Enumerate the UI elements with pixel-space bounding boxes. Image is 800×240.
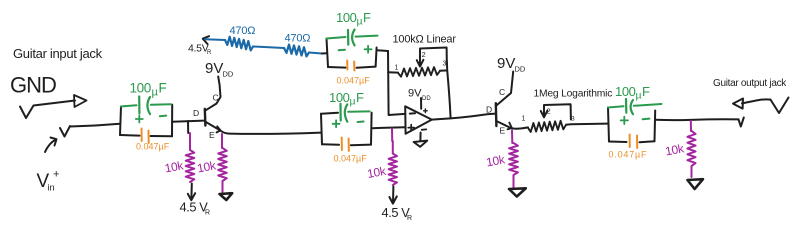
U1 non-inverting input +: [408, 125, 414, 131]
svg-text:1: 1: [522, 116, 526, 123]
svg-text:1Meg Logarithmic: 1Meg Logarithmic: [534, 89, 613, 100]
svg-text:100: 100: [336, 10, 357, 25]
output node tick: [739, 118, 744, 127]
svg-text:+: +: [53, 169, 59, 181]
svg-text:3: 3: [443, 61, 447, 68]
svg-text:4.5 V: 4.5 V: [180, 200, 209, 215]
svg-text:µ: µ: [350, 96, 356, 108]
svg-text:DD: DD: [515, 65, 526, 74]
svg-text:µ: µ: [152, 87, 159, 99]
wire R5 to C4 network: [309, 53, 322, 54]
output jack tick V: [771, 98, 789, 114]
resistor R3 10k (magenta): [218, 148, 227, 192]
wire bias arrow to R4: [205, 38, 225, 41]
small curved arrow to input node: [45, 140, 56, 153]
wire VR2 to C8 network: [566, 124, 608, 125]
capacitor C8 100uF electrolytic (green): [608, 106, 624, 107]
svg-text:Guitar output jack: Guitar output jack: [713, 78, 787, 89]
arrow to 4.5VR (R2): [190, 184, 192, 200]
svg-text:3: 3: [571, 116, 575, 123]
svg-text:0.047µF: 0.047µF: [136, 142, 170, 152]
wire C8 network to output: [655, 118, 738, 121]
transistor Q1 bar: [204, 109, 207, 126]
resistor R6 10k (magenta): [389, 141, 397, 185]
capacitor C7 0.047uF (orange): [341, 138, 343, 151]
capacitor network box C1/C2: [120, 107, 121, 136]
svg-text:F: F: [356, 90, 364, 105]
svg-text:0.047µF: 0.047µF: [337, 76, 371, 86]
wire Q1 emitter to C3 network: [221, 131, 322, 134]
net vertical wire to op-amp inverting input: [388, 51, 405, 115]
svg-text:F: F: [642, 84, 650, 99]
junction to R6: [391, 129, 393, 142]
transistor Q2 bar: [495, 103, 498, 126]
capacitor C9 0.047uF (orange): [629, 135, 631, 148]
U1 V- mark: [422, 128, 426, 130]
ground below U1: [414, 141, 428, 147]
resistor R8 10k (magenta): [687, 131, 695, 177]
svg-text:9V: 9V: [497, 55, 515, 72]
wire input to C1 network: [70, 124, 120, 127]
svg-text:C: C: [499, 87, 505, 97]
svg-text:C: C: [213, 93, 219, 103]
svg-text:9V: 9V: [408, 88, 422, 100]
svg-text:R: R: [407, 215, 412, 222]
C1 polarity +: [136, 116, 143, 123]
output jack arrow: [733, 99, 743, 109]
svg-text:E: E: [500, 126, 506, 136]
potentiometer VR2 resistive element: [528, 121, 566, 132]
svg-text:Guitar input jack: Guitar input jack: [13, 46, 103, 61]
C6 polarity +: [333, 120, 340, 127]
svg-text:4.5V: 4.5V: [188, 43, 209, 55]
resistor R4 470ohm (blue): [225, 37, 253, 51]
Q2 emitter lead with arrow: [496, 121, 510, 128]
node Vin tick: [60, 126, 70, 137]
C4 polarity +: [365, 46, 372, 53]
resistor R5 470ohm (blue): [284, 45, 309, 57]
svg-text:µ: µ: [636, 90, 642, 102]
capacitor C2 0.047uF (orange): [141, 129, 143, 142]
capacitor C6 100uF electrolytic (green): [321, 113, 338, 114]
branch to VR1 terminal 1: [388, 71, 398, 73]
ground below R3: [220, 193, 233, 200]
arrow to 4.5VR (R6): [392, 187, 394, 203]
svg-text:100: 100: [615, 84, 636, 99]
junction to R8: [690, 121, 692, 131]
svg-text:470Ω: 470Ω: [230, 25, 256, 37]
svg-text:µ: µ: [357, 16, 363, 28]
junction Q2 emitter to R7: [511, 131, 513, 144]
resistor R7 10k (magenta): [509, 143, 518, 188]
wire R4 to R5: [253, 47, 284, 49]
resistor R2 10k (magenta): [186, 133, 195, 182]
wire C1 network to Q1 base: [172, 121, 204, 122]
capacitor C4 100uF electrolytic (green): [327, 37, 346, 39]
svg-text:DD: DD: [422, 96, 431, 102]
arrowhead to 4.5VR: [203, 36, 209, 44]
svg-text:4.5 V: 4.5 V: [382, 205, 411, 220]
svg-text:R: R: [207, 50, 212, 56]
U1 inverting input -: [410, 112, 415, 114]
svg-text:100: 100: [329, 90, 350, 105]
svg-text:F: F: [159, 81, 167, 96]
U1 power wire: [420, 98, 422, 109]
svg-text:DD: DD: [223, 70, 234, 79]
C8 polarity -: [643, 118, 650, 121]
Q1 collector lead: [206, 77, 221, 111]
wire Q2 emitter to VR2: [512, 127, 528, 128]
svg-text:R: R: [205, 210, 210, 217]
wire C4 network to inverting net: [377, 49, 388, 52]
svg-text:in: in: [48, 183, 55, 193]
svg-text:100kΩ Linear: 100kΩ Linear: [393, 34, 457, 46]
capacitor network box C6/C7: [321, 114, 322, 145]
svg-text:9V: 9V: [205, 60, 223, 77]
input ground arrow: [20, 101, 75, 119]
svg-text:GND: GND: [10, 73, 56, 98]
ground below R7: [509, 188, 526, 196]
VR2 wiper arrow: [544, 104, 571, 119]
wire VR1 terminal3 down to op-amp output node: [440, 61, 451, 118]
ground below R8: [688, 179, 704, 189]
svg-text:D: D: [193, 108, 199, 118]
svg-text:2: 2: [422, 50, 426, 59]
svg-text:0.047µF: 0.047µF: [609, 150, 648, 160]
svg-text:F: F: [363, 10, 371, 25]
capacitor C5 0.047uF (orange): [346, 61, 348, 70]
C6 polarity -: [358, 121, 364, 124]
U1 V+ mark: [424, 109, 428, 113]
svg-text:470Ω: 470Ω: [285, 33, 311, 45]
potentiometer VR1 resistive element: [398, 67, 440, 77]
Q2 collector lead: [496, 72, 513, 106]
C4 polarity -: [339, 49, 345, 52]
wire junction Q1 emitter to R3: [221, 134, 223, 148]
capacitor network box C8/C9: [608, 108, 609, 142]
svg-text:1: 1: [395, 65, 399, 72]
U1 ground wire: [419, 133, 421, 141]
wire U1 output to Q2 base: [432, 114, 496, 120]
wire junction Q1 base to R2: [187, 121, 189, 133]
C8 polarity +: [621, 117, 628, 124]
C1 polarity -: [160, 115, 166, 118]
VR1 wiper arrow: [420, 48, 447, 66]
op-amp U1 triangle: [405, 106, 432, 134]
svg-text:100: 100: [130, 81, 151, 96]
svg-text:0.047µF: 0.047µF: [334, 154, 368, 164]
svg-text:E: E: [209, 130, 215, 140]
svg-text:D: D: [486, 105, 492, 115]
capacitor C1 100uF electrolytic (green): [121, 105, 137, 106]
wire C6 network to op-amp non-inverting input: [372, 127, 405, 128]
capacitor network box C4/C5: [327, 39, 329, 68]
Q1 emitter lead with arrow: [206, 122, 220, 130]
svg-text:2: 2: [547, 107, 551, 116]
